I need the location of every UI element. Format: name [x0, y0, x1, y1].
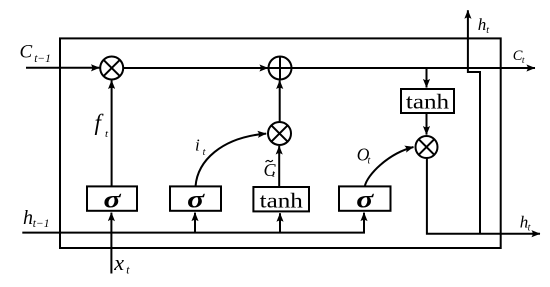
- wire multiply3 down and right to h_t output: [427, 158, 540, 234]
- svg-text:h: h: [478, 15, 487, 34]
- multiply node 2 (input gate): [268, 122, 291, 145]
- svg-text:σ: σ: [104, 184, 123, 213]
- wire x_t input up into sigma1: [110, 213, 112, 274]
- svg-text:h: h: [23, 207, 33, 229]
- svg-text:tanh: tanh: [406, 89, 450, 113]
- wire sigma3 curve to multiply3 (o gate): [365, 147, 414, 186]
- wire h_t branch up to top output: [468, 10, 480, 234]
- wire C_t-1 input to multiply: [26, 67, 100, 69]
- svg-text:t−1: t−1: [33, 218, 50, 230]
- wire tanh to multiply2: [278, 146, 280, 187]
- add node: [269, 57, 292, 80]
- multiply node (forget gate): [100, 57, 123, 80]
- wire sigma2 curve to multiply2 (i gate): [196, 134, 267, 187]
- multiply node 3 (output gate): [416, 136, 438, 158]
- node h_t right label: [520, 213, 531, 234]
- wire C line down to tanh (right): [426, 68, 428, 88]
- node i_t label: [195, 136, 206, 158]
- node x_t label: [113, 250, 130, 277]
- node C_t label: [513, 48, 525, 66]
- svg-text:t: t: [368, 156, 371, 167]
- tanh box bottom (candidate): [253, 187, 309, 212]
- tanh box right (output): [401, 89, 454, 113]
- svg-text:x: x: [113, 250, 124, 275]
- wire branch up into tanh bottom: [279, 213, 281, 232]
- sigma box 2 (input): [170, 184, 221, 213]
- svg-text:t: t: [522, 56, 525, 66]
- node C~_t label: [264, 160, 277, 180]
- wire branch up into sigma2: [194, 213, 196, 233]
- svg-text:t: t: [528, 222, 531, 233]
- svg-text:σ: σ: [187, 184, 206, 213]
- svg-text:t−1: t−1: [34, 53, 51, 65]
- wire multiply to add: [123, 67, 268, 69]
- wire tanh right to multiply3: [426, 113, 428, 135]
- wire multiply2 to add: [279, 80, 281, 122]
- wire add to C_t output: [292, 67, 536, 69]
- wire h_t-1 input line to sigma3: [22, 213, 364, 233]
- outer cell box: [60, 38, 501, 248]
- svg-text:t: t: [272, 169, 275, 180]
- svg-text:t: t: [203, 147, 206, 158]
- node O_t label: [357, 145, 371, 167]
- svg-text:σ: σ: [356, 184, 375, 213]
- node C_t-1 label: [20, 42, 51, 65]
- node h_t top label: [478, 15, 490, 36]
- sigma box 1 (forget): [87, 184, 137, 213]
- sigma box 3 (output): [339, 184, 391, 213]
- svg-text:C: C: [20, 42, 33, 63]
- node h_t-1 label: [23, 207, 50, 230]
- svg-text:i: i: [195, 136, 200, 155]
- svg-text:t: t: [486, 25, 489, 36]
- svg-text:tanh: tanh: [260, 188, 304, 212]
- wire sigma1 to multiply (f gate): [111, 80, 113, 186]
- node f_t label: [95, 110, 110, 140]
